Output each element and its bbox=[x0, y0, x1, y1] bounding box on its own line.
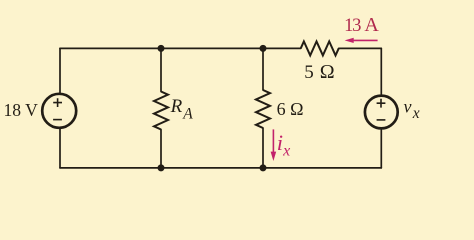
wire top (node between sources, RA, 6ohm, 5ohm) bbox=[60, 47, 381, 49]
current ix arrow (pointing down) bbox=[271, 129, 277, 161]
voltage source vx minus sign bbox=[377, 119, 386, 121]
svg-text:6 Ω: 6 Ω bbox=[277, 99, 304, 119]
resistor 6 ohm zigzag bbox=[256, 90, 270, 128]
junction dot bottom 6ohm node bbox=[260, 164, 267, 171]
voltage source 18V circle bbox=[42, 94, 76, 128]
voltage source vx plus sign bbox=[377, 99, 386, 108]
voltage source 18V plus sign bbox=[53, 98, 62, 107]
svg-text:5 Ω: 5 Ω bbox=[304, 61, 334, 83]
voltage source vx circle bbox=[365, 96, 398, 129]
svg-text:18 V: 18 V bbox=[4, 100, 39, 120]
junction dot bottom RA node bbox=[158, 164, 165, 171]
wire RA branch bbox=[160, 48, 162, 167]
wire right branch (vx source) bbox=[380, 48, 382, 167]
resistor RA zigzag bbox=[154, 92, 168, 130]
current 13A arrow (pointing left) bbox=[345, 38, 378, 43]
resistor 5 ohm zigzag bbox=[301, 41, 339, 55]
junction dot top RA node bbox=[158, 45, 165, 52]
junction dot top 6ohm node bbox=[260, 45, 267, 52]
svg-text:13 A: 13 A bbox=[344, 14, 379, 36]
wire left branch (18V source) bbox=[59, 48, 61, 167]
wire 6ohm branch bbox=[262, 48, 264, 167]
voltage source 18V minus sign bbox=[53, 119, 62, 121]
wire bottom (common node) bbox=[60, 167, 381, 169]
